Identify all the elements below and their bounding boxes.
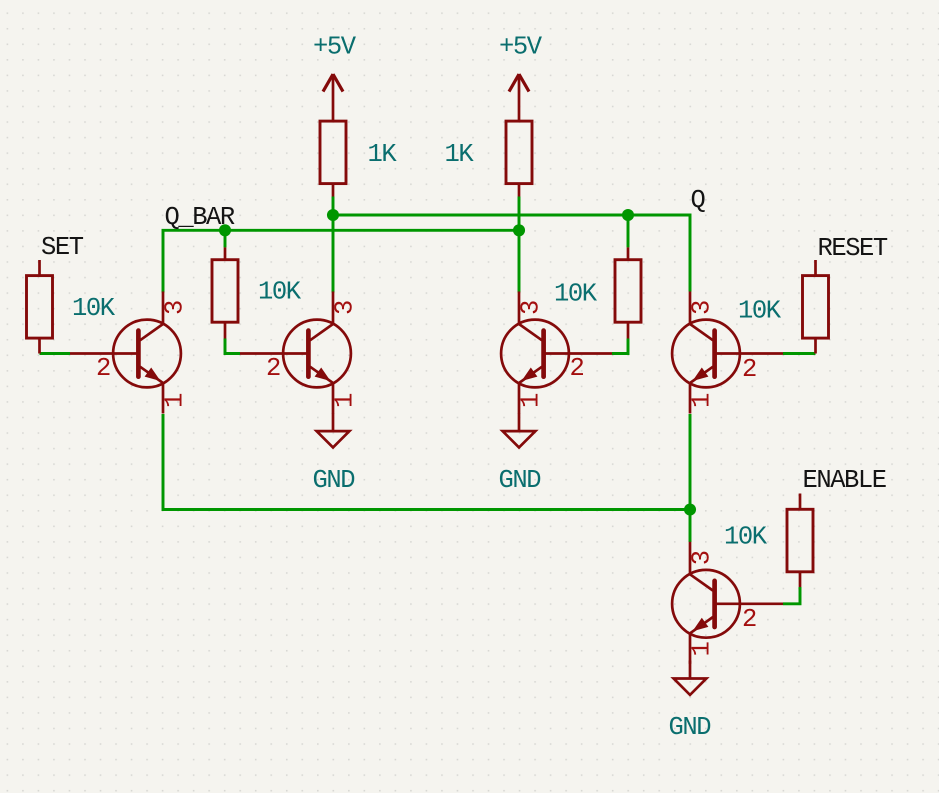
svg-text:10K: 10K [724,523,768,552]
svg-text:1: 1 [161,393,190,408]
svg-text:3: 3 [688,551,717,565]
svg-text:GND: GND [669,713,711,742]
svg-text:+5V: +5V [499,33,543,62]
svg-text:Q_BAR: Q_BAR [165,203,235,232]
svg-text:RESET: RESET [818,234,888,263]
svg-text:1: 1 [517,393,546,408]
svg-text:GND: GND [313,466,355,495]
svg-text:10K: 10K [554,280,598,309]
svg-text:10K: 10K [738,297,782,326]
svg-text:2: 2 [742,355,756,384]
svg-text:+5V: +5V [313,33,357,62]
svg-text:1: 1 [688,642,717,657]
svg-text:2: 2 [742,605,756,634]
svg-text:2: 2 [96,354,110,383]
svg-text:10K: 10K [258,278,302,307]
svg-text:1K: 1K [445,140,475,169]
svg-text:GND: GND [499,466,541,495]
svg-text:3: 3 [161,301,190,315]
svg-text:10K: 10K [72,294,116,323]
svg-text:2: 2 [266,354,280,383]
svg-text:3: 3 [331,301,360,315]
svg-text:2: 2 [570,354,584,383]
svg-text:SET: SET [41,233,84,262]
svg-text:3: 3 [688,301,717,315]
svg-text:1: 1 [331,393,360,408]
svg-text:1: 1 [688,393,717,408]
svg-text:Q: Q [691,186,706,215]
svg-text:ENABLE: ENABLE [803,466,886,495]
svg-text:1K: 1K [368,140,398,169]
svg-text:3: 3 [517,301,546,315]
